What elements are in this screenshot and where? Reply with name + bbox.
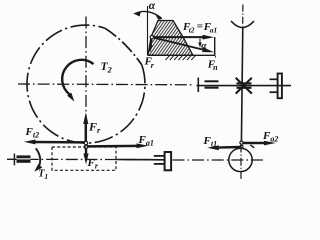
svg-text:Ft1: Ft1	[203, 135, 218, 149]
force Fr down arrow (on worm)	[83, 147, 88, 165]
force rectangle right side	[214, 37, 216, 55]
svg-text:T2: T2	[101, 61, 113, 75]
rotation tick on worm circle	[250, 145, 254, 148]
svg-text:F′n: F′n	[207, 55, 218, 73]
svg-text:α: α	[201, 41, 207, 51]
svg-text:Ft2: Ft2	[25, 126, 40, 140]
angle alpha measuring arc	[133, 11, 163, 19]
bearing bracket (worm shaft, left view)	[154, 152, 171, 170]
worm circle vertical crosshair	[240, 145, 242, 180]
force Fa1 arrow (on worm, to right)	[87, 143, 148, 148]
svg-text:Fr: Fr	[88, 120, 101, 136]
wheel shaft vertical centerline top	[242, 5, 244, 27]
contact node (inset)	[150, 35, 153, 38]
contact node lower (right view)	[240, 145, 243, 148]
worm shaft end tick	[13, 154, 15, 166]
worm shaft line to bearing	[116, 159, 165, 161]
svg-text:T1: T1	[38, 169, 48, 182]
contact node lower (left view)	[84, 145, 87, 148]
force Fr up arrow (on wheel)	[83, 113, 88, 144]
coupling double bars (right view)	[205, 81, 219, 87]
force Fa2 arrow (to right)	[243, 141, 276, 146]
wheel horizontal centerline	[18, 83, 193, 86]
worm hidden outline rectangle (dashed)	[52, 147, 116, 170]
rotation cup arc (top)	[231, 21, 254, 28]
svg-text:Fa1: Fa1	[138, 134, 154, 148]
wheel pitch circle (dash-dot, upper-right sector replaced by section chord)	[27, 25, 145, 143]
svg-text:Fa2: Fa2	[262, 130, 278, 144]
bearing star symbol	[236, 78, 252, 94]
force Ft1 arrow (to left)	[207, 145, 240, 150]
bearing bracket (right view)	[270, 74, 282, 99]
wheel shaft horizontal line (right view)	[197, 85, 292, 87]
section chord to detail (dash-dot)	[105, 28, 142, 64]
worm thread cross-section (hatched)	[148, 21, 193, 56]
force Ft2=Fa1 arrow (inset)	[152, 35, 214, 40]
svg-text:Ft2=Fa1: Ft2=Fa1	[182, 21, 217, 35]
inset vertical reference line	[147, 6, 149, 55]
force Ft2 arrow (on wheel, to left)	[24, 140, 86, 145]
contact node upper (left view)	[84, 141, 87, 144]
base line under thread	[148, 54, 215, 56]
worm axis centerline to right view	[173, 159, 264, 161]
small alpha angle marker (inset)	[198, 39, 202, 48]
torque T2 arc arrow	[62, 60, 93, 102]
worm shaft coupling block	[17, 155, 31, 162]
force Fn' arrow (inset)	[152, 37, 214, 52]
worm cross-section circle	[229, 148, 252, 171]
force Fr' arrow (inset)	[149, 38, 153, 53]
contact node upper (right view)	[240, 141, 243, 144]
svg-text:α: α	[149, 0, 156, 12]
torque T1 arc arrow	[34, 148, 42, 171]
wheel shaft vertical line	[241, 27, 242, 143]
worm axis centerline (left view)	[7, 158, 154, 160]
ground hatch ticks below base	[166, 56, 196, 60]
shaft end tick (right view)	[197, 78, 199, 93]
svg-text:F′r: F′r	[144, 53, 155, 70]
wheel vertical centerline	[85, 17, 87, 144]
